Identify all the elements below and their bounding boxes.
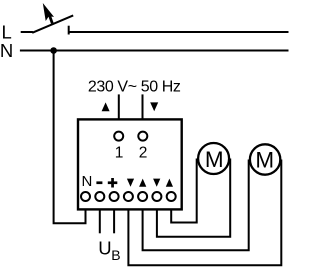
terminal label down triangle 1 <box>127 179 134 187</box>
pin 1 circle <box>114 132 123 141</box>
arrow down (supply in) <box>150 102 158 111</box>
switch S1 blade <box>32 15 73 32</box>
wire terminal6 to motor1 right lead <box>157 159 230 237</box>
wire terminal4 to motor2 right lead <box>128 160 281 266</box>
switch S1 fixed contact tick <box>68 26 70 35</box>
terminal label up triangle 1 <box>139 179 146 187</box>
svg-text:M: M <box>205 147 224 172</box>
node N junction dot <box>50 47 57 54</box>
wire UB minus lead <box>99 210 101 233</box>
terminal 5 (up 1) <box>138 192 147 201</box>
wire supply 1 into box <box>118 94 120 119</box>
switch S1 actuation arrow <box>43 3 54 23</box>
svg-text:N: N <box>0 40 13 61</box>
arrow up (supply in) <box>102 102 110 111</box>
motor M2 <box>250 144 280 174</box>
wire N drop from junction <box>54 51 86 224</box>
terminal 7 (up 2) <box>167 192 176 201</box>
svg-text:M: M <box>255 148 274 173</box>
wire supply 2 into box <box>142 94 144 119</box>
wire UB plus lead <box>113 210 115 233</box>
terminal label up triangle 2 <box>166 179 173 187</box>
terminal 4 (down 1) <box>124 192 133 201</box>
svg-text:230 V~ 50 Hz: 230 V~ 50 Hz <box>88 78 181 95</box>
terminal 6 (down 2) <box>152 192 161 201</box>
svg-text:B: B <box>111 247 120 263</box>
terminal 2 (minus) <box>95 192 104 201</box>
terminal 3 (plus) <box>110 192 119 201</box>
wire L left stub <box>21 31 33 33</box>
wire L line to right edge <box>69 31 289 33</box>
svg-text:N: N <box>81 173 92 190</box>
svg-text:2: 2 <box>139 144 148 161</box>
pin 2 circle <box>138 132 147 141</box>
motor M1 <box>198 143 229 174</box>
wire N line <box>20 50 289 52</box>
terminal label plus <box>108 178 118 188</box>
terminal 1 (N) <box>81 192 90 201</box>
terminal label minus <box>96 181 102 184</box>
control unit box <box>78 119 182 209</box>
wire terminal5 to motor2 left lead <box>143 160 249 251</box>
terminal label down triangle 2 <box>153 179 160 187</box>
wire terminal7 to motor1 left lead <box>171 159 197 223</box>
svg-text:1: 1 <box>115 144 124 161</box>
svg-text:U: U <box>98 238 111 259</box>
